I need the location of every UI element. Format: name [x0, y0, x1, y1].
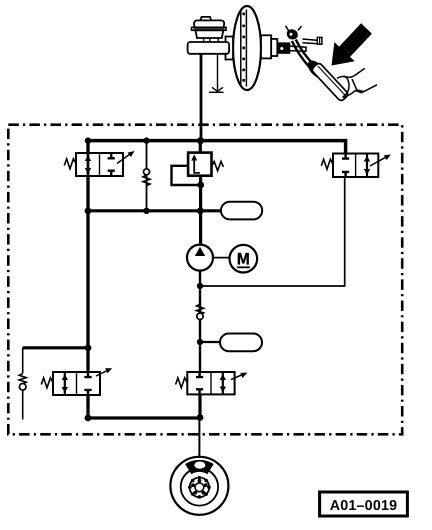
svg-text:A01–0019: A01–0019: [330, 498, 398, 514]
